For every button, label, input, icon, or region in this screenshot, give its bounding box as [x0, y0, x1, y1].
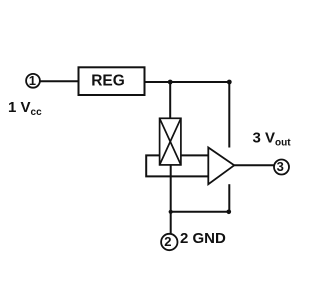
svg-text:3 Vout: 3 Vout [253, 130, 292, 149]
svg-text:REG: REG [91, 73, 125, 90]
svg-text:2: 2 [164, 234, 171, 249]
svg-text:1 Vcc: 1 Vcc [8, 99, 42, 118]
svg-text:3: 3 [277, 159, 284, 174]
svg-text:1: 1 [29, 73, 36, 88]
svg-text:2 GND: 2 GND [180, 230, 226, 247]
